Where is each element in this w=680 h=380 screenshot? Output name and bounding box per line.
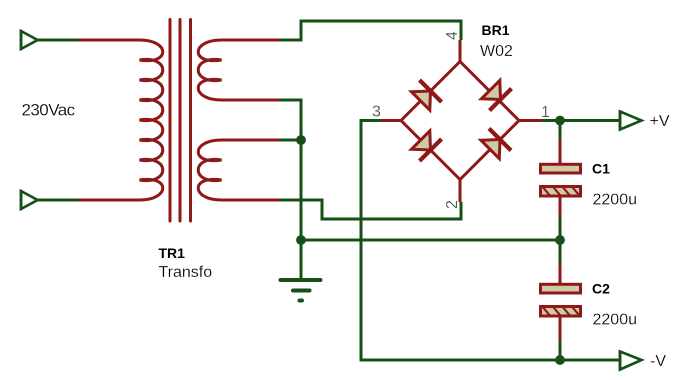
svg-text:3: 3 xyxy=(372,104,381,121)
svg-text:Transfo: Transfo xyxy=(159,264,213,281)
svg-text:230Vac: 230Vac xyxy=(22,101,76,120)
svg-text:1: 1 xyxy=(541,104,550,121)
svg-text:4: 4 xyxy=(444,31,461,40)
svg-text:C1: C1 xyxy=(592,161,610,177)
svg-text:BR1: BR1 xyxy=(482,22,510,38)
svg-text:-V: -V xyxy=(650,353,666,370)
svg-text:C2: C2 xyxy=(592,281,610,297)
svg-text:W02: W02 xyxy=(480,43,513,60)
svg-text:TR1: TR1 xyxy=(159,245,186,261)
svg-text:+V: +V xyxy=(650,113,670,130)
svg-text:2: 2 xyxy=(444,200,461,209)
svg-text:2200u: 2200u xyxy=(593,192,638,209)
svg-text:2200u: 2200u xyxy=(593,312,638,329)
